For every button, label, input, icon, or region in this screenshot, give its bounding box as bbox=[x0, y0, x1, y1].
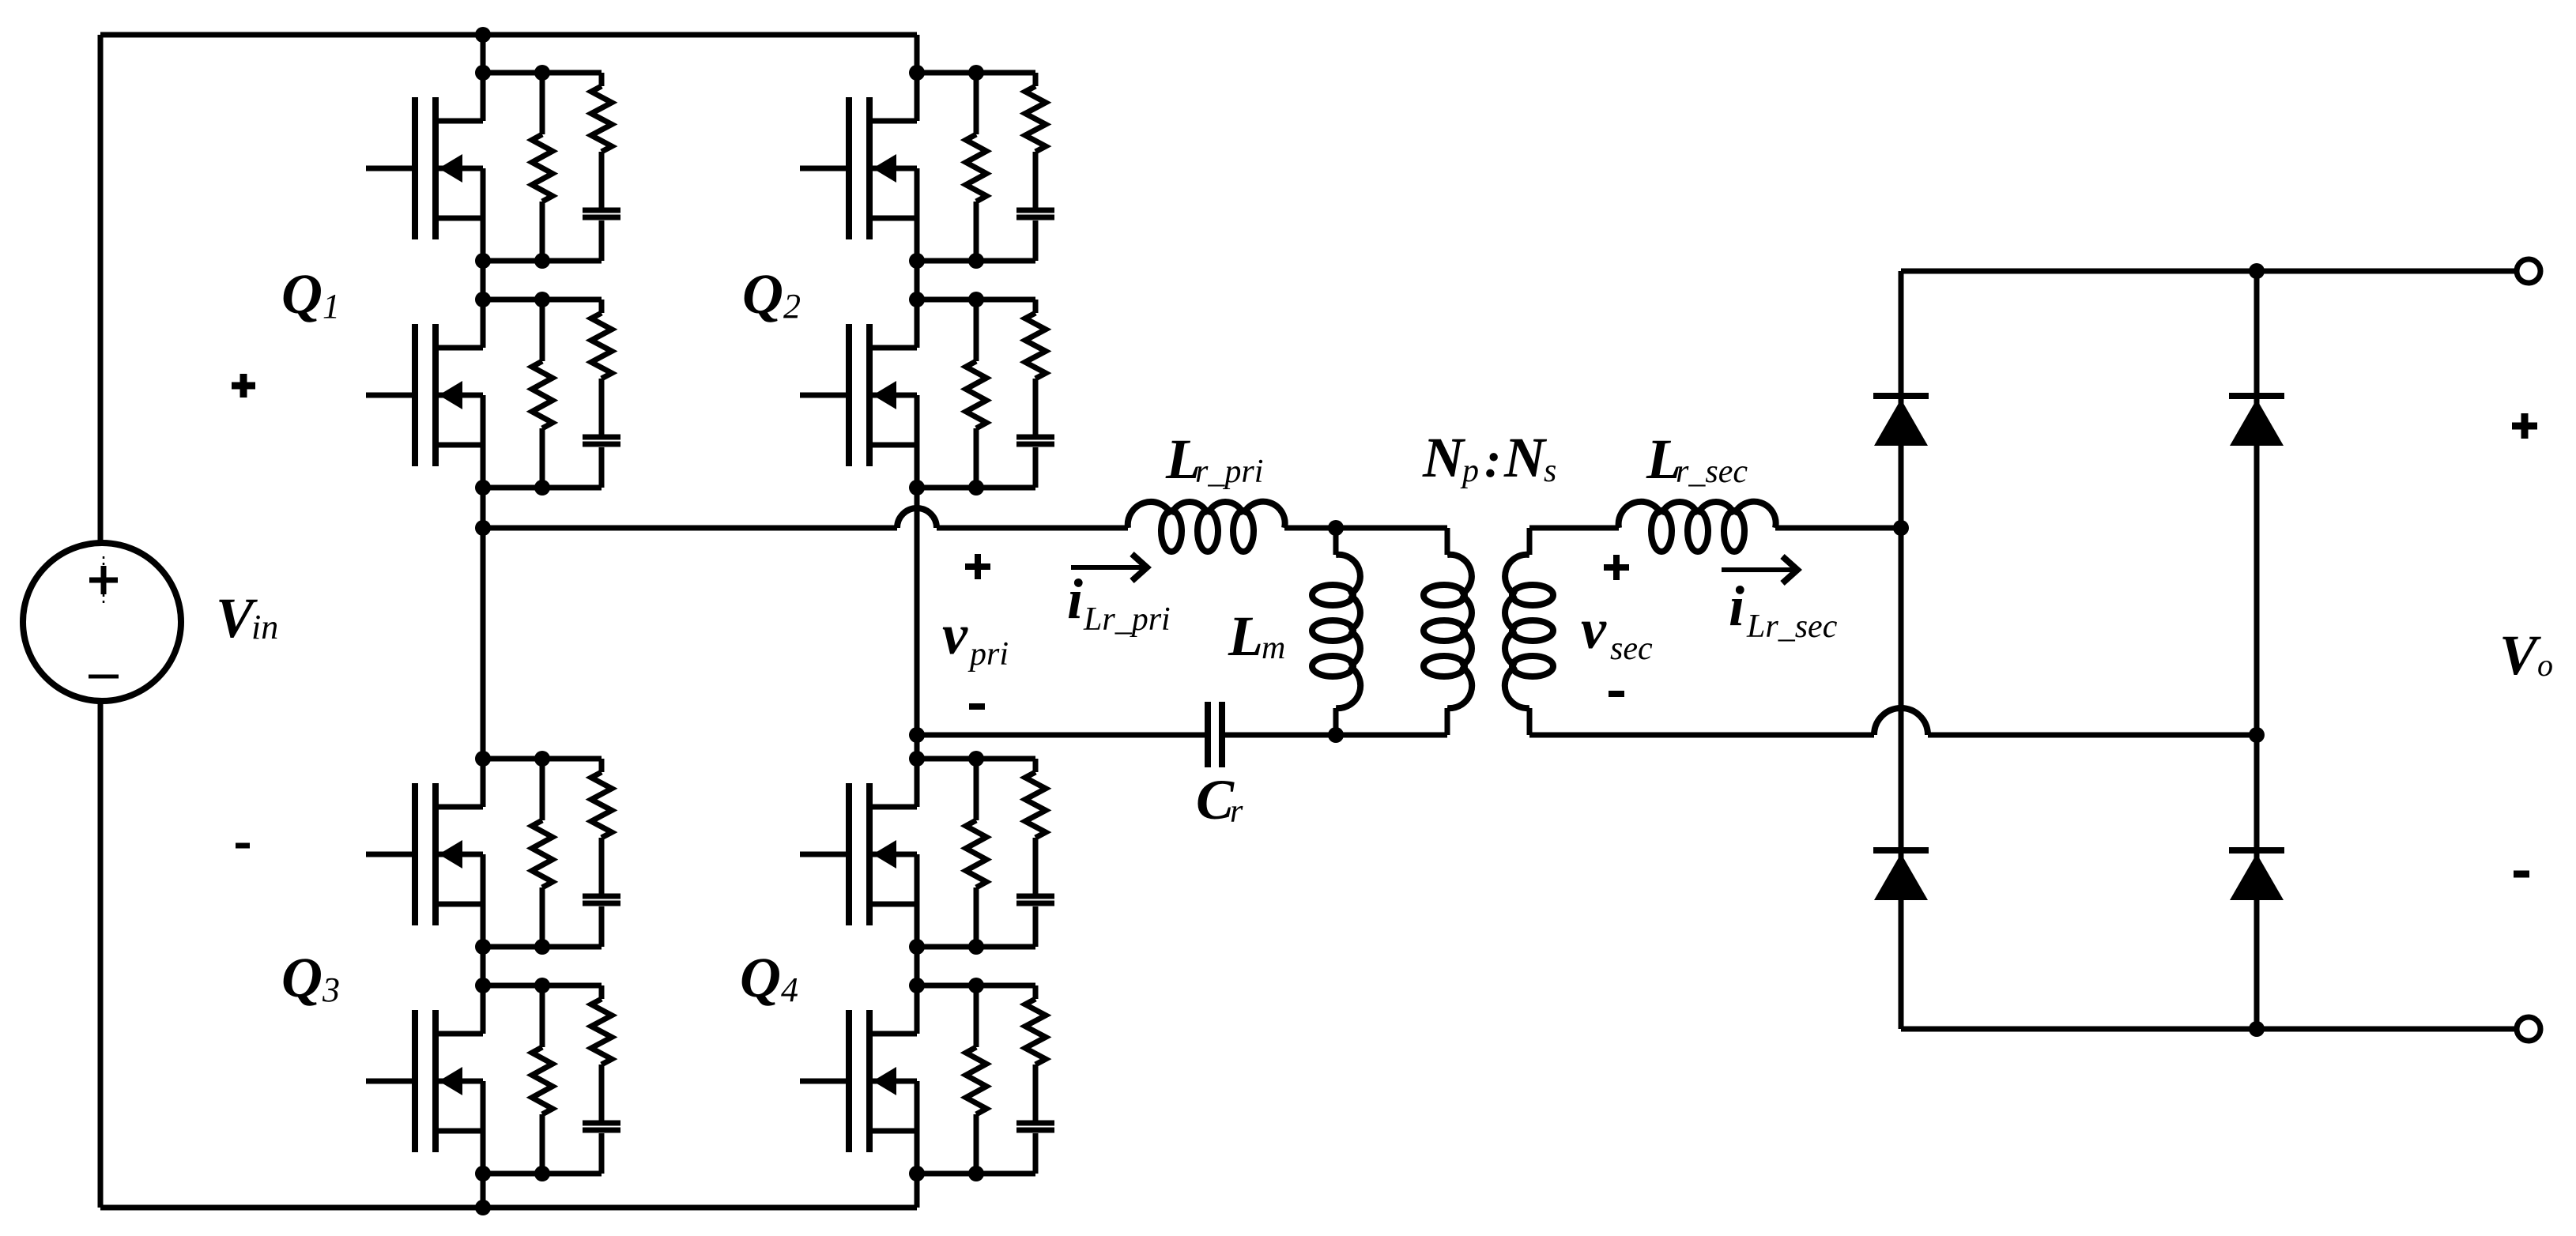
svg-text:i: i bbox=[1067, 567, 1083, 631]
wire (hop over rectifier leg) bbox=[1874, 708, 1928, 735]
wire (hop over leg B) bbox=[897, 508, 937, 528]
resistor (balancing, Q1 (lower device)) bbox=[532, 300, 553, 488]
transistor Q1 (lower device) bbox=[366, 300, 483, 488]
node bbox=[475, 27, 491, 43]
resistor (balancing, Q4 (lower device)) bbox=[966, 985, 986, 1174]
node bbox=[1328, 727, 1344, 743]
svg-text:Q: Q bbox=[281, 262, 322, 326]
wire bbox=[481, 1174, 486, 1208]
capacitor (snubber, Q1 (upper device)) bbox=[583, 210, 620, 261]
node bbox=[534, 939, 550, 955]
label Vin bbox=[216, 586, 278, 650]
capacitor (snubber, Q1 (lower device)) bbox=[583, 437, 620, 488]
node bbox=[968, 65, 984, 81]
wire bbox=[483, 756, 602, 762]
wire bbox=[1775, 526, 1901, 531]
label Q4 bbox=[740, 946, 798, 1009]
wire bbox=[915, 1174, 920, 1208]
transistor Q2 (lower device) bbox=[800, 300, 917, 488]
node bbox=[909, 1166, 925, 1181]
node bbox=[534, 480, 550, 496]
transistor Q4 (lower device) bbox=[800, 985, 917, 1174]
label iLr_pri bbox=[1067, 567, 1171, 638]
wire bbox=[917, 983, 1035, 989]
node bbox=[968, 480, 984, 496]
resistor (snubber, Q4 (lower device)) bbox=[1025, 985, 1046, 1121]
wire bbox=[483, 258, 602, 264]
transistor Q1 (upper device) bbox=[366, 73, 483, 261]
resistor (snubber, Q3 (lower device)) bbox=[591, 985, 612, 1121]
svg-text:i: i bbox=[1729, 575, 1744, 638]
resistor (balancing, Q4 (upper device)) bbox=[966, 759, 986, 947]
node bbox=[968, 939, 984, 955]
node (bridge midpoint A) bbox=[475, 520, 491, 536]
wire bbox=[483, 485, 602, 491]
resistor (balancing, Q1 (upper device)) bbox=[532, 73, 553, 261]
node bbox=[475, 978, 491, 993]
node bbox=[1328, 520, 1344, 536]
svg-text:r: r bbox=[1230, 793, 1243, 830]
label + (Vo) bbox=[2512, 413, 2537, 439]
wire bbox=[917, 297, 1035, 303]
label iLr_sec bbox=[1729, 575, 1838, 645]
wire bbox=[917, 485, 1035, 491]
svg-text:4: 4 bbox=[781, 970, 798, 1009]
capacitor (snubber, Q3 (upper device)) bbox=[583, 896, 620, 947]
node bbox=[475, 65, 491, 81]
wire bbox=[937, 526, 1128, 531]
svg-text::: : bbox=[1484, 431, 1501, 488]
label Q1 bbox=[281, 262, 340, 326]
wire bbox=[1901, 269, 2257, 274]
transformer secondary winding Ns bbox=[1505, 528, 1553, 735]
node bbox=[475, 480, 491, 496]
wire bbox=[915, 735, 920, 759]
node bbox=[534, 65, 550, 81]
output terminal (+) bbox=[2517, 259, 2540, 283]
node bbox=[1893, 520, 1909, 536]
resistor (snubber, Q1 (lower device)) bbox=[591, 300, 612, 435]
transistor Q3 (upper device) bbox=[366, 759, 483, 947]
node bbox=[534, 292, 550, 307]
transistor Q3 (lower device) bbox=[366, 985, 483, 1174]
label vpri bbox=[942, 603, 1009, 673]
wire bbox=[483, 944, 602, 950]
inductor Lr_pri bbox=[1128, 502, 1285, 552]
svg-text:Q: Q bbox=[281, 946, 322, 1009]
wire bbox=[483, 1171, 602, 1177]
wire bbox=[917, 733, 1208, 738]
label Lr_pri bbox=[1165, 428, 1263, 491]
svg-text:3: 3 bbox=[322, 970, 340, 1009]
node bbox=[475, 1166, 491, 1181]
resistor (balancing, Q2 (upper device)) bbox=[966, 73, 986, 261]
node bbox=[475, 292, 491, 307]
wire bbox=[481, 947, 486, 985]
diode D2 bbox=[2229, 396, 2284, 446]
node bbox=[968, 292, 984, 307]
svg-text:v: v bbox=[942, 603, 968, 666]
resistor (balancing, Q2 (lower device)) bbox=[966, 300, 986, 488]
label Cr bbox=[1196, 768, 1243, 831]
svg-text:Q: Q bbox=[740, 946, 781, 1009]
wire bbox=[1899, 735, 1904, 1029]
wire bbox=[917, 70, 1035, 76]
label Lr_sec bbox=[1646, 428, 1748, 491]
inductor Lm bbox=[1312, 528, 1360, 735]
wire bbox=[1222, 733, 1447, 738]
label - (vpri) bbox=[969, 703, 985, 710]
node bbox=[968, 1166, 984, 1181]
capacitor Cr bbox=[1208, 702, 1222, 767]
arrow iLr_pri bbox=[1071, 554, 1147, 581]
wire bbox=[483, 70, 602, 76]
wire bbox=[1529, 733, 1874, 738]
wire bbox=[915, 35, 920, 73]
node bbox=[475, 751, 491, 767]
label + (vsec) bbox=[1604, 555, 1629, 580]
node bbox=[534, 751, 550, 767]
wire bbox=[2254, 271, 2260, 1029]
node bbox=[909, 480, 925, 496]
wire bbox=[481, 488, 486, 759]
inductor Lr_sec bbox=[1619, 502, 1776, 552]
label - (Vin polarity) bbox=[236, 843, 250, 849]
arrow iLr_sec bbox=[1722, 556, 1797, 583]
resistor (snubber, Q3 (upper device)) bbox=[591, 759, 612, 894]
wire bbox=[2257, 269, 2517, 274]
node bbox=[534, 253, 550, 269]
svg-text:r_sec: r_sec bbox=[1676, 454, 1748, 490]
wire bbox=[483, 983, 602, 989]
node bbox=[909, 292, 925, 307]
label Np : Ns bbox=[1422, 426, 1556, 489]
svg-text:pri: pri bbox=[967, 636, 1009, 673]
node bbox=[909, 751, 925, 767]
node bbox=[475, 1200, 491, 1215]
svg-text:sec: sec bbox=[1610, 631, 1653, 667]
svg-text:m: m bbox=[1262, 630, 1285, 666]
wire bbox=[917, 944, 1035, 950]
svg-text:N: N bbox=[1422, 426, 1466, 489]
resistor (balancing, Q3 (upper device)) bbox=[532, 759, 553, 947]
label Vo bbox=[2499, 624, 2553, 687]
wire bbox=[100, 1205, 917, 1211]
label + (vpri) bbox=[965, 554, 990, 579]
wire bbox=[483, 526, 897, 531]
wire bbox=[481, 35, 486, 73]
svg-text:L: L bbox=[1228, 605, 1263, 668]
label - (Vo) bbox=[2514, 871, 2529, 878]
voltage source Vin bbox=[23, 543, 181, 701]
wire bbox=[98, 35, 104, 543]
node bbox=[534, 978, 550, 993]
wire bbox=[917, 756, 1035, 762]
wire bbox=[915, 261, 920, 300]
capacitor (snubber, Q4 (upper device)) bbox=[1016, 896, 1054, 947]
svg-text:Lr_pri: Lr_pri bbox=[1083, 601, 1171, 638]
label Q3 bbox=[281, 946, 340, 1009]
capacitor (snubber, Q4 (lower device)) bbox=[1016, 1123, 1054, 1174]
wire bbox=[917, 258, 1035, 264]
label + (Vin polarity) bbox=[232, 374, 255, 398]
wire bbox=[1901, 1027, 2257, 1032]
svg-text:r_pri: r_pri bbox=[1195, 454, 1263, 490]
node bbox=[2249, 727, 2265, 743]
node bbox=[909, 65, 925, 81]
svg-text:V: V bbox=[2499, 624, 2541, 687]
svg-text:1: 1 bbox=[322, 287, 340, 326]
svg-text:v: v bbox=[1581, 597, 1607, 661]
node bbox=[968, 978, 984, 993]
capacitor (snubber, Q2 (upper device)) bbox=[1016, 210, 1054, 261]
label Lm bbox=[1228, 605, 1285, 668]
resistor (snubber, Q2 (upper device)) bbox=[1025, 73, 1046, 208]
wire bbox=[1928, 733, 2257, 738]
svg-text:p: p bbox=[1460, 453, 1479, 489]
resistor (balancing, Q3 (lower device)) bbox=[532, 985, 553, 1174]
resistor (snubber, Q1 (upper device)) bbox=[591, 73, 612, 208]
wire bbox=[2257, 1027, 2517, 1032]
node bbox=[534, 1166, 550, 1181]
wire bbox=[100, 32, 917, 38]
svg-text:Lr_sec: Lr_sec bbox=[1746, 609, 1838, 645]
svg-text:o: o bbox=[2537, 647, 2553, 683]
node (bridge midpoint B) bbox=[909, 727, 925, 743]
wire bbox=[917, 1171, 1035, 1177]
diode D1 bbox=[1873, 396, 1929, 446]
node bbox=[968, 253, 984, 269]
capacitor (snubber, Q2 (lower device)) bbox=[1016, 437, 1054, 488]
node bbox=[909, 939, 925, 955]
transistor Q4 (upper device) bbox=[800, 759, 917, 947]
output terminal (-) bbox=[2517, 1017, 2540, 1041]
node bbox=[475, 939, 491, 955]
wire bbox=[1284, 526, 1447, 531]
transistor Q2 (upper device) bbox=[800, 73, 917, 261]
svg-text:in: in bbox=[251, 608, 278, 646]
diode D3 bbox=[1873, 850, 1929, 900]
label - (vsec) bbox=[1609, 691, 1624, 697]
wire bbox=[483, 297, 602, 303]
wire bbox=[98, 702, 104, 1208]
svg-text:2: 2 bbox=[783, 287, 801, 326]
wire bbox=[915, 947, 920, 985]
transformer primary winding Np bbox=[1424, 528, 1472, 735]
svg-text:s: s bbox=[1544, 453, 1556, 489]
resistor (snubber, Q2 (lower device)) bbox=[1025, 300, 1046, 435]
wire bbox=[1899, 271, 1904, 735]
svg-text:Q: Q bbox=[742, 262, 783, 326]
node bbox=[2249, 263, 2265, 279]
label vsec bbox=[1581, 597, 1653, 667]
svg-text:N: N bbox=[1503, 426, 1548, 489]
node bbox=[909, 978, 925, 993]
diode D4 bbox=[2229, 850, 2284, 900]
label Q2 bbox=[742, 262, 801, 326]
node bbox=[2249, 1021, 2265, 1037]
wire bbox=[1529, 526, 1619, 531]
resistor (snubber, Q4 (upper device)) bbox=[1025, 759, 1046, 894]
node bbox=[909, 253, 925, 269]
node bbox=[475, 253, 491, 269]
capacitor (snubber, Q3 (lower device)) bbox=[583, 1123, 620, 1174]
svg-text:C: C bbox=[1196, 768, 1235, 831]
node bbox=[968, 751, 984, 767]
wire bbox=[915, 488, 920, 735]
wire bbox=[481, 261, 486, 300]
